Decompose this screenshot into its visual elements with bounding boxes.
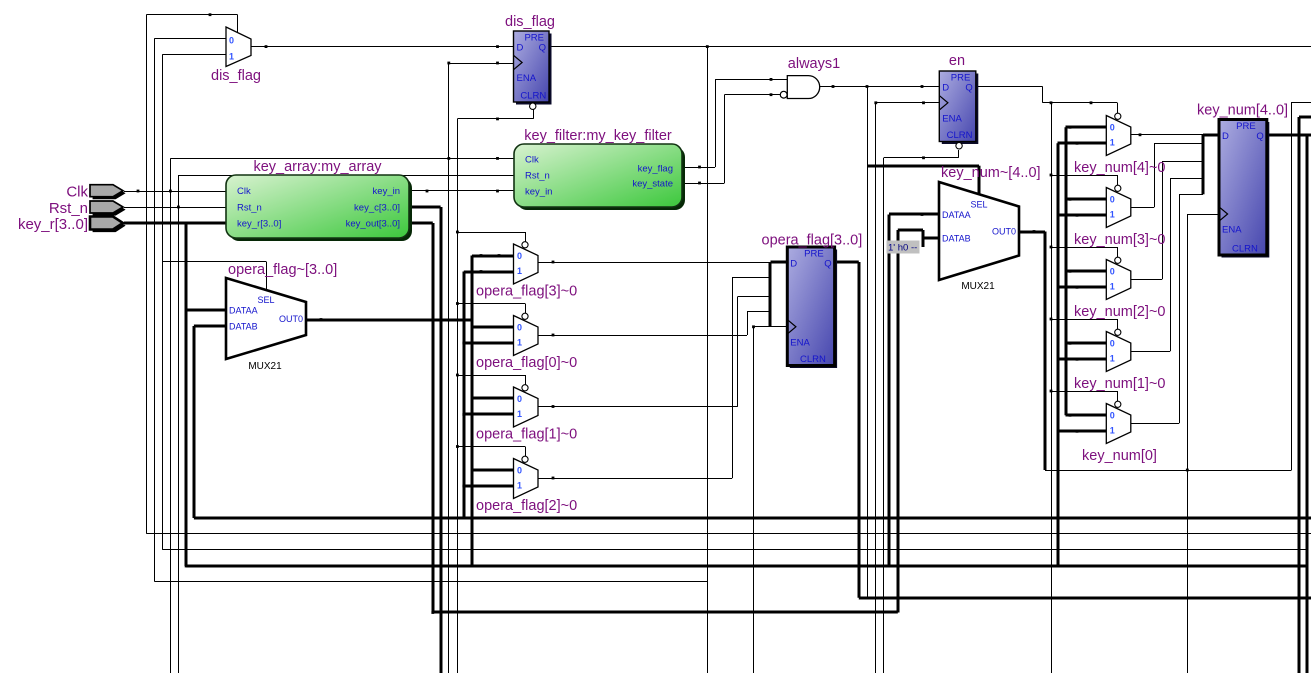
svg-text:D: D <box>517 43 524 54</box>
svg-text:1: 1 <box>229 52 234 62</box>
svg-text:1: 1 <box>1110 353 1115 363</box>
svg-text:0: 0 <box>517 251 522 261</box>
svg-text:Clk: Clk <box>66 184 88 201</box>
svg-text:dis_flag: dis_flag <box>211 68 261 84</box>
svg-text:MUX21: MUX21 <box>961 281 995 292</box>
svg-text:0: 0 <box>517 322 522 332</box>
svg-text:1: 1 <box>517 337 522 347</box>
svg-text:ENA: ENA <box>517 73 537 84</box>
svg-text:opera_flag[1]~0: opera_flag[1]~0 <box>476 426 577 442</box>
svg-text:key_in: key_in <box>373 186 400 197</box>
svg-text:1' h0 --: 1' h0 -- <box>888 243 917 254</box>
svg-text:0: 0 <box>1110 266 1115 276</box>
svg-text:1: 1 <box>1110 137 1115 147</box>
svg-text:key_out[3..0]: key_out[3..0] <box>346 219 400 230</box>
svg-text:1: 1 <box>1110 281 1115 291</box>
svg-text:key_num~[4..0]: key_num~[4..0] <box>941 165 1041 181</box>
svg-text:Q: Q <box>539 43 546 54</box>
svg-text:Q: Q <box>824 259 831 270</box>
svg-text:key_num[1]~0: key_num[1]~0 <box>1074 376 1166 392</box>
svg-text:key_flag: key_flag <box>638 164 673 175</box>
svg-text:en: en <box>949 53 965 69</box>
svg-text:MUX21: MUX21 <box>248 361 282 372</box>
svg-text:CLRN: CLRN <box>520 91 546 102</box>
svg-text:Clk: Clk <box>525 155 539 166</box>
svg-text:1: 1 <box>517 480 522 490</box>
svg-text:SEL: SEL <box>970 200 987 210</box>
svg-text:key_r[3..0]: key_r[3..0] <box>18 216 88 233</box>
svg-text:D: D <box>1222 131 1229 142</box>
svg-text:0: 0 <box>1110 338 1115 348</box>
svg-text:1: 1 <box>1110 209 1115 219</box>
svg-text:SEL: SEL <box>257 295 274 305</box>
svg-text:PRE: PRE <box>1236 121 1256 132</box>
svg-text:D: D <box>790 259 797 270</box>
svg-text:OUT0: OUT0 <box>279 314 303 324</box>
svg-text:1: 1 <box>517 266 522 276</box>
svg-text:DATAB: DATAB <box>942 234 971 244</box>
svg-text:opera_flag~[3..0]: opera_flag~[3..0] <box>228 262 337 278</box>
svg-text:key_num[4]~0: key_num[4]~0 <box>1074 160 1166 176</box>
svg-text:key_c[3..0]: key_c[3..0] <box>354 203 400 214</box>
svg-text:OUT0: OUT0 <box>992 227 1016 237</box>
svg-text:CLRN: CLRN <box>947 130 973 141</box>
svg-text:0: 0 <box>229 36 234 46</box>
svg-text:key_array:my_array: key_array:my_array <box>253 159 382 175</box>
svg-text:key_state: key_state <box>632 179 673 190</box>
svg-text:D: D <box>942 83 949 94</box>
svg-text:Q: Q <box>1256 131 1263 142</box>
svg-text:Rst_n: Rst_n <box>237 203 262 214</box>
svg-text:1: 1 <box>517 409 522 419</box>
svg-text:DATAA: DATAA <box>942 210 971 220</box>
svg-text:CLRN: CLRN <box>1232 244 1258 255</box>
svg-text:opera_flag[3..0]: opera_flag[3..0] <box>762 233 863 249</box>
svg-text:1: 1 <box>1110 425 1115 435</box>
svg-text:key_num[4..0]: key_num[4..0] <box>1197 103 1288 119</box>
svg-text:key_in: key_in <box>525 187 552 198</box>
svg-text:Q: Q <box>965 83 972 94</box>
svg-text:CLRN: CLRN <box>800 354 826 365</box>
svg-text:Rst_n: Rst_n <box>49 200 88 217</box>
svg-text:key_num[2]~0: key_num[2]~0 <box>1074 304 1166 320</box>
svg-text:key_num[3]~0: key_num[3]~0 <box>1074 232 1166 248</box>
svg-text:ENA: ENA <box>1222 225 1242 236</box>
svg-text:Rst_n: Rst_n <box>525 171 550 182</box>
svg-text:opera_flag[2]~0: opera_flag[2]~0 <box>476 498 577 514</box>
svg-text:0: 0 <box>1110 194 1115 204</box>
svg-text:DATAB: DATAB <box>229 322 258 332</box>
svg-text:key_num[0]: key_num[0] <box>1082 448 1157 464</box>
svg-text:0: 0 <box>517 465 522 475</box>
svg-text:opera_flag[3]~0: opera_flag[3]~0 <box>476 283 577 299</box>
svg-text:opera_flag[0]~0: opera_flag[0]~0 <box>476 355 577 371</box>
svg-text:0: 0 <box>1110 122 1115 132</box>
svg-text:PRE: PRE <box>804 249 824 260</box>
svg-text:key_r[3..0]: key_r[3..0] <box>237 219 281 230</box>
svg-text:Clk: Clk <box>237 186 251 197</box>
svg-text:dis_flag: dis_flag <box>505 14 555 30</box>
svg-text:always1: always1 <box>788 56 840 72</box>
svg-text:0: 0 <box>517 394 522 404</box>
svg-text:DATAA: DATAA <box>229 306 258 316</box>
svg-text:key_filter:my_key_filter: key_filter:my_key_filter <box>524 128 672 144</box>
svg-text:ENA: ENA <box>942 113 962 124</box>
svg-text:ENA: ENA <box>790 337 810 348</box>
svg-text:0: 0 <box>1110 410 1115 420</box>
